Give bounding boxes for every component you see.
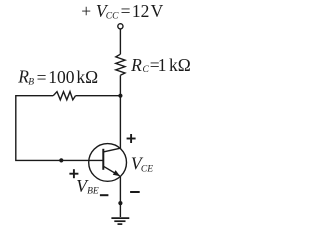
transistor base bar xyxy=(102,149,104,170)
junction collector node xyxy=(118,94,122,98)
svg-text:=: = xyxy=(37,68,47,88)
wire base node to transistor base xyxy=(61,159,103,161)
junction emitter node xyxy=(118,201,122,205)
label - (VCE) xyxy=(130,191,140,193)
svg-text:kΩ: kΩ xyxy=(76,67,98,87)
junction base node xyxy=(59,158,63,162)
label RB=100kΩ xyxy=(17,66,98,87)
transistor emitter lead xyxy=(103,166,119,176)
transistor body circle xyxy=(89,144,127,182)
svg-text:BE: BE xyxy=(87,186,99,196)
terminal +Vcc xyxy=(118,24,123,29)
wire emitter down to ground xyxy=(119,176,121,217)
svg-text:=: = xyxy=(121,1,131,21)
svg-text:+: + xyxy=(81,1,91,21)
svg-text:C: C xyxy=(143,65,150,75)
wire Vcc to RC top xyxy=(119,29,121,54)
resistor RC xyxy=(116,54,125,75)
wire RB left, down left side, to base node xyxy=(16,96,62,161)
svg-text:V: V xyxy=(151,1,164,21)
resistor RB xyxy=(53,92,75,100)
transistor Q1 xyxy=(89,144,127,182)
svg-text:12: 12 xyxy=(132,1,150,21)
svg-text:CE: CE xyxy=(141,165,153,175)
svg-text:100: 100 xyxy=(48,67,75,87)
transistor emitter arrowhead xyxy=(113,170,120,176)
svg-text:CC: CC xyxy=(106,11,119,21)
label + (VBE) xyxy=(69,169,78,178)
label + (VCE) xyxy=(127,134,136,143)
transistor collector lead xyxy=(103,148,120,152)
wire RC bottom to collector node xyxy=(119,75,121,95)
wire collector node down to transistor collector xyxy=(119,96,121,149)
label VCE xyxy=(131,153,153,174)
label VBE xyxy=(76,176,99,197)
svg-text:1: 1 xyxy=(158,55,167,75)
svg-text:R: R xyxy=(130,55,142,75)
svg-text:kΩ: kΩ xyxy=(169,55,191,75)
label - (VBE) xyxy=(100,194,109,196)
label RC=1kΩ xyxy=(130,55,191,75)
label +VCC=12V xyxy=(81,1,163,21)
ground xyxy=(111,218,129,224)
wire collector node left to RB xyxy=(76,95,121,97)
svg-text:B: B xyxy=(28,77,34,87)
